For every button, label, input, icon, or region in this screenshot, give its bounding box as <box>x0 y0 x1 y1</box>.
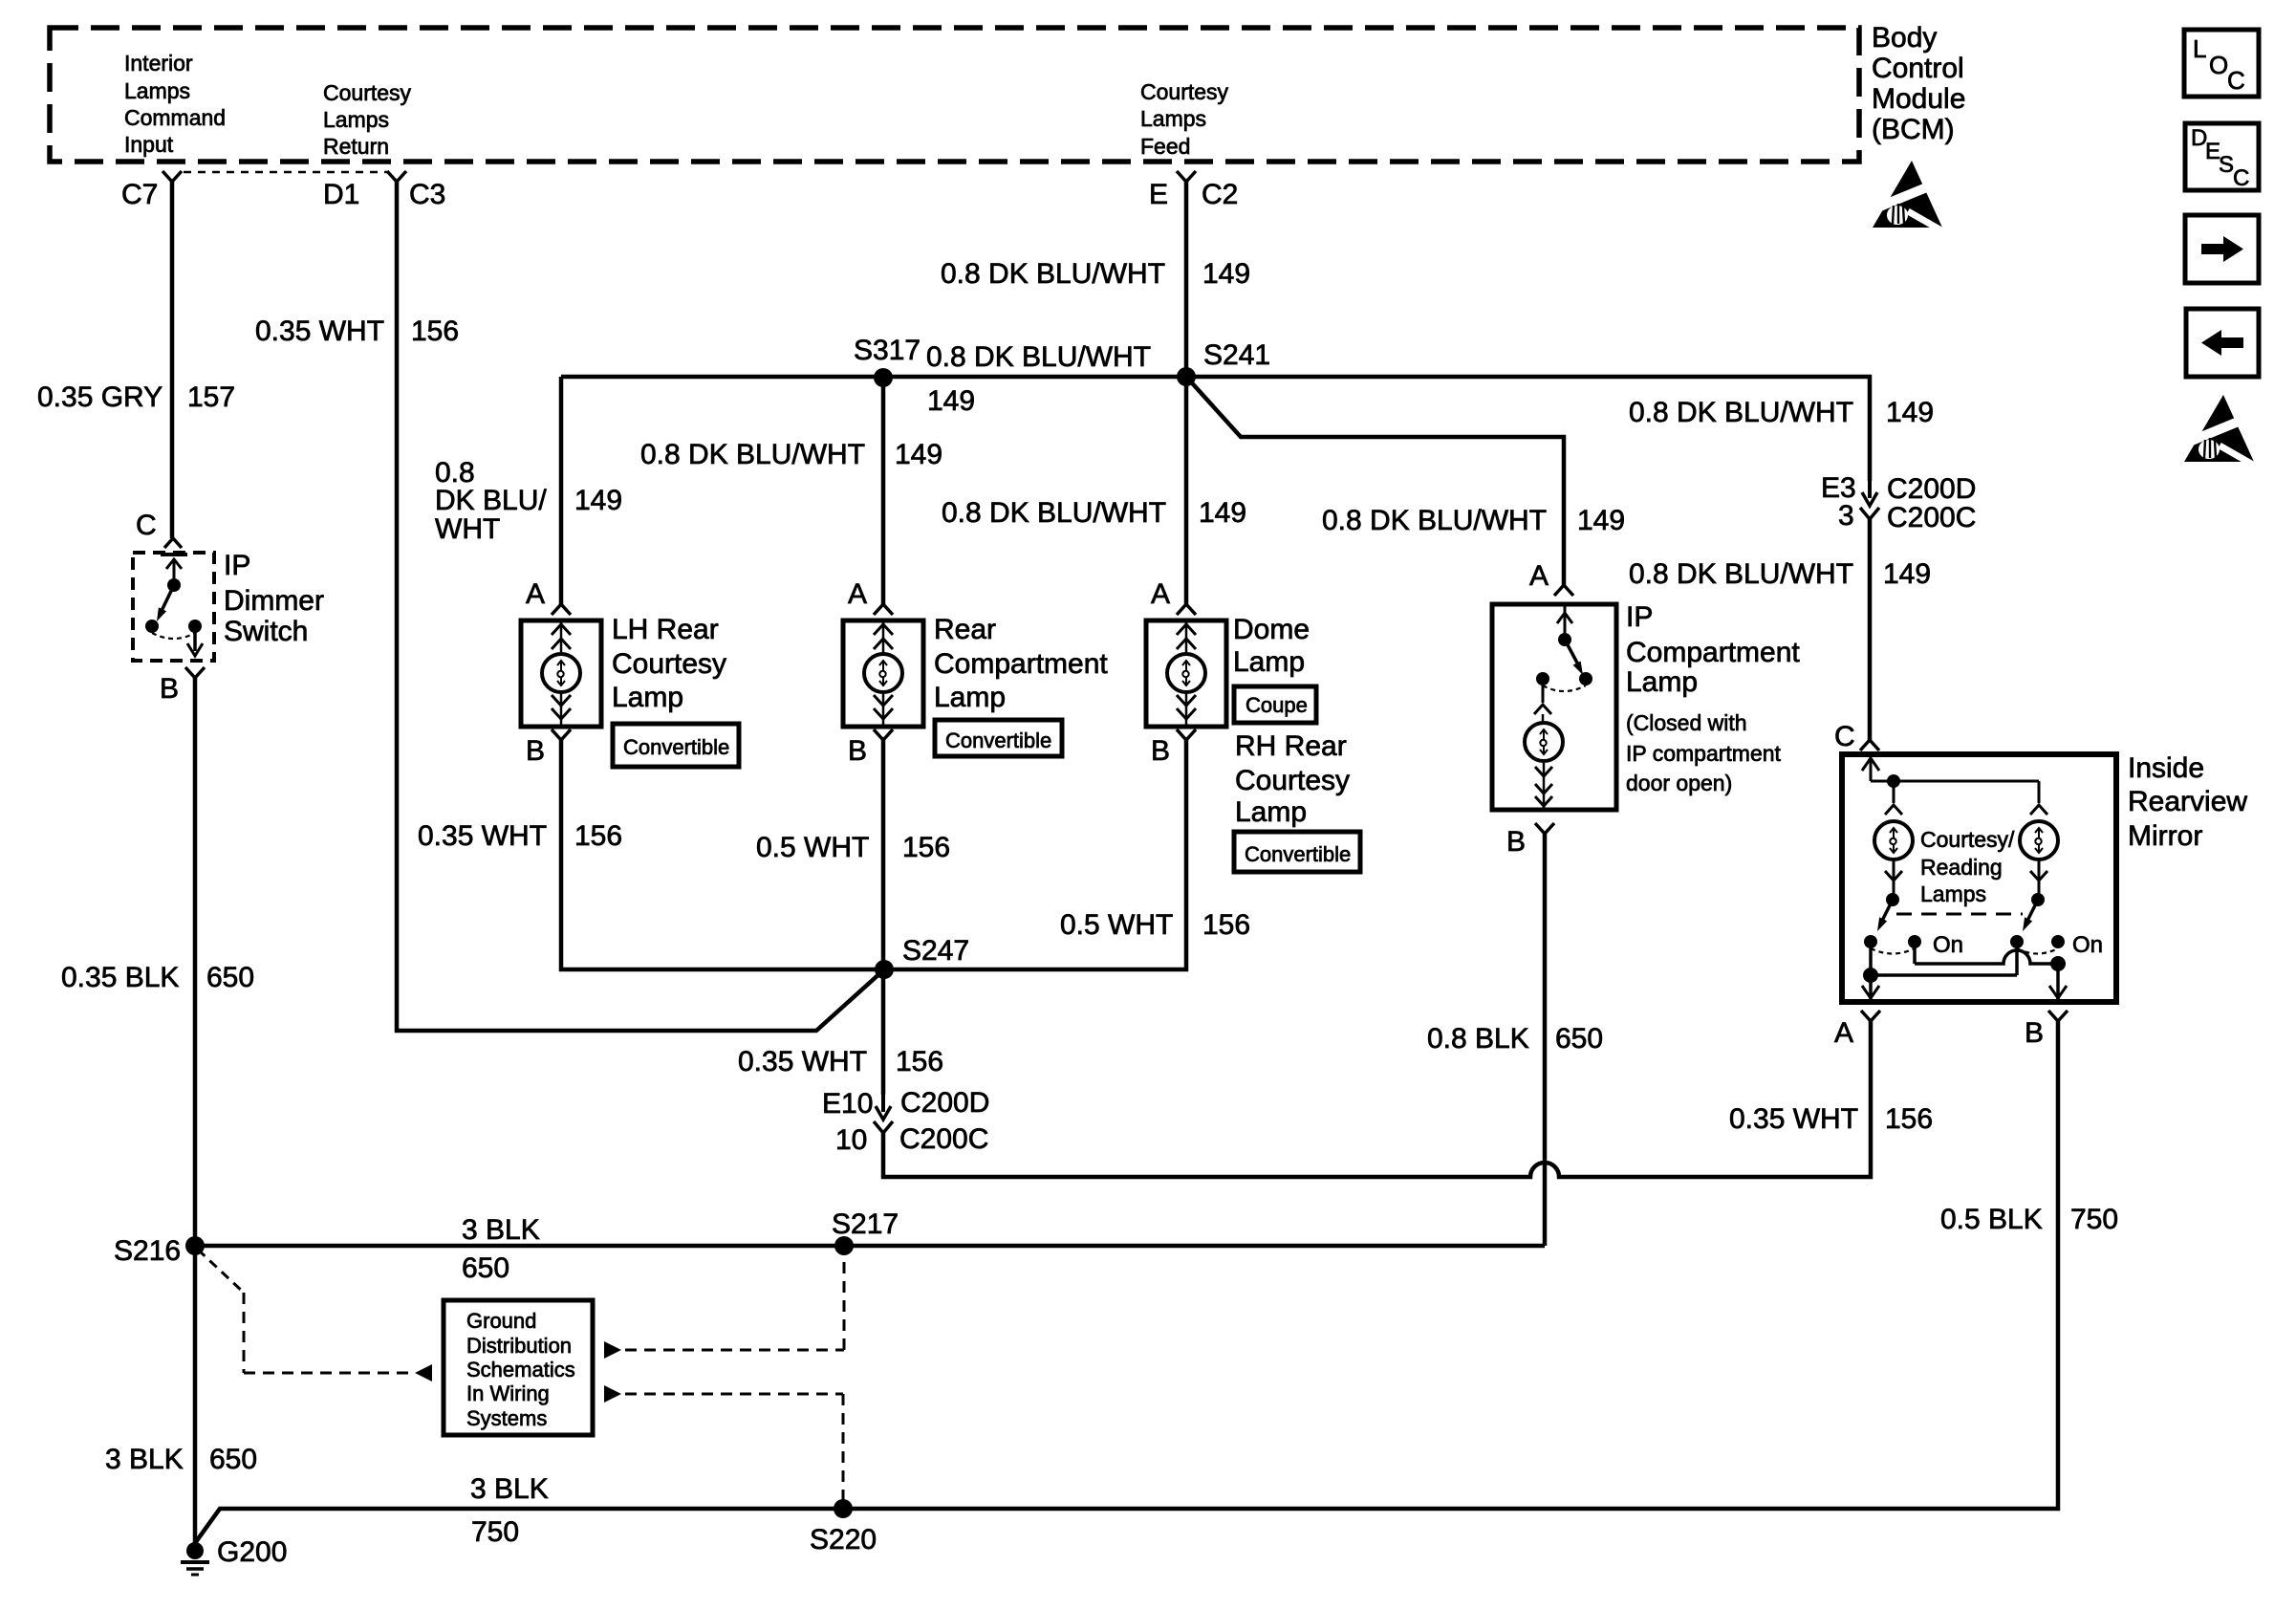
svg-text:E10: E10 <box>822 1088 873 1120</box>
connector C7 terminal <box>162 171 182 182</box>
wire 149 drop to LH rear courtesy lamp <box>559 377 564 604</box>
forward arrow box <box>2185 215 2259 283</box>
svg-text:C2: C2 <box>1202 179 1238 210</box>
svg-text:149: 149 <box>574 485 622 516</box>
svg-text:A: A <box>1151 578 1170 610</box>
svg-text:156: 156 <box>411 315 459 347</box>
svg-text:S247: S247 <box>902 935 969 967</box>
mirror right switch <box>2038 859 2041 900</box>
ESD-sensitive symbol below BCM <box>1873 161 1942 228</box>
svg-text:E: E <box>1149 179 1168 210</box>
svg-text:Switch: Switch <box>224 616 308 647</box>
svg-text:IP compartment: IP compartment <box>1626 741 1782 766</box>
splice S241 <box>1177 367 1196 386</box>
feed bus wire S317 to S241 to E3 drop <box>561 377 1870 481</box>
svg-text:A: A <box>848 578 867 610</box>
svg-text:Lamp: Lamp <box>612 682 683 713</box>
svg-text:156: 156 <box>902 832 950 863</box>
svg-text:3: 3 <box>1838 500 1854 532</box>
svg-text:0.8 DK BLU/WHT: 0.8 DK BLU/WHT <box>1629 397 1853 428</box>
svg-text:IP: IP <box>1626 601 1653 633</box>
svg-text:Lamp: Lamp <box>1235 796 1307 828</box>
svg-text:C200C: C200C <box>1887 502 1976 533</box>
svg-text:Control: Control <box>1872 53 1964 84</box>
svg-text:D1: D1 <box>323 179 359 210</box>
wire 156 from rear compartment lamp B through S247 <box>881 740 886 1095</box>
IP dimmer switch contacts and arm <box>166 559 182 569</box>
svg-text:B: B <box>1151 735 1170 767</box>
svg-text:On: On <box>2072 932 2103 958</box>
svg-text:149: 149 <box>1199 497 1246 529</box>
svg-text:C7: C7 <box>121 179 158 210</box>
wire 650 BLK from dimmer B to G200 <box>193 678 198 1551</box>
IP compartment lamp switch <box>1564 604 1567 639</box>
svg-text:Body: Body <box>1872 22 1937 54</box>
svg-text:S220: S220 <box>810 1524 877 1556</box>
svg-text:0.8 DK BLU/WHT: 0.8 DK BLU/WHT <box>942 497 1166 529</box>
wire 157 GRY from BCM C7 to IP dimmer switch <box>170 182 175 538</box>
mirror A terminal <box>1861 1011 1880 1021</box>
svg-text:Feed: Feed <box>1140 134 1190 159</box>
svg-text:0.5 BLK: 0.5 BLK <box>1940 1204 2043 1235</box>
svg-text:3 BLK: 3 BLK <box>462 1214 540 1246</box>
svg-text:C3: C3 <box>409 179 445 210</box>
svg-text:3 BLK: 3 BLK <box>470 1473 549 1505</box>
mirror B terminal <box>2048 1011 2068 1021</box>
svg-text:Convertible: Convertible <box>623 735 729 759</box>
svg-text:750: 750 <box>471 1516 519 1548</box>
dashed connector link C7-D1 <box>184 171 388 173</box>
svg-text:Rearview: Rearview <box>2128 786 2247 817</box>
svg-text:0.35 BLK: 0.35 BLK <box>61 962 179 993</box>
branch from S241 to IP compartment lamp <box>1186 377 1564 585</box>
connector D1/C3 terminal <box>387 171 406 182</box>
svg-text:S216: S216 <box>114 1235 181 1267</box>
svg-text:Command: Command <box>124 105 226 130</box>
splice S216 <box>185 1236 205 1255</box>
svg-text:149: 149 <box>1577 505 1625 536</box>
svg-text:0.8 DK BLU/WHT: 0.8 DK BLU/WHT <box>926 341 1151 373</box>
svg-text:C: C <box>2227 66 2245 95</box>
dashed reference to S217 <box>604 1341 621 1359</box>
svg-text:Mirror: Mirror <box>2128 820 2202 852</box>
wire 149 from E3 to mirror C <box>1868 519 1873 740</box>
Ground Distribution Schematics reference box <box>444 1300 593 1435</box>
svg-text:B: B <box>1506 826 1526 858</box>
RH Convertible tag <box>1234 832 1360 872</box>
svg-text:L: L <box>2193 34 2206 63</box>
svg-text:149: 149 <box>927 385 975 417</box>
dashed reference to S220 <box>604 1385 621 1403</box>
svg-text:B: B <box>526 735 545 767</box>
svg-text:0.35 WHT: 0.35 WHT <box>255 315 384 347</box>
svg-text:(Closed with: (Closed with <box>1626 710 1747 735</box>
svg-text:C200D: C200D <box>900 1087 989 1119</box>
dome Coupe tag <box>1234 686 1316 723</box>
mirror left switch <box>1893 859 1895 900</box>
svg-text:650: 650 <box>209 1444 257 1475</box>
svg-text:S: S <box>2219 152 2234 178</box>
ground wire 650 from S216 to IP compartment lamp <box>195 1244 1545 1249</box>
svg-text:Rear: Rear <box>934 614 996 645</box>
svg-text:0.35 WHT: 0.35 WHT <box>738 1046 867 1077</box>
svg-text:Courtesy: Courtesy <box>323 80 412 105</box>
wire 156 run to mirror A with hop over 650 wire <box>883 1021 1871 1177</box>
IP compartment lamp bulb <box>1542 679 1545 703</box>
svg-text:750: 750 <box>2070 1204 2118 1235</box>
wire 156 WHT from BCM D1/C3 to S247 <box>397 182 882 1031</box>
svg-text:B: B <box>2025 1017 2044 1049</box>
svg-text:IP: IP <box>224 550 250 581</box>
svg-text:Compartment: Compartment <box>1626 637 1800 668</box>
svg-text:0.8 DK BLU/WHT: 0.8 DK BLU/WHT <box>1629 558 1853 590</box>
svg-text:LH Rear: LH Rear <box>612 614 719 645</box>
svg-text:B: B <box>848 735 867 767</box>
svg-text:Lamp: Lamp <box>1233 646 1305 678</box>
splice S217 <box>834 1236 854 1255</box>
svg-text:Lamps: Lamps <box>323 107 389 132</box>
svg-text:650: 650 <box>1555 1023 1603 1055</box>
svg-text:B: B <box>160 673 179 705</box>
LH Convertible tag <box>613 724 739 767</box>
svg-text:A: A <box>526 578 545 610</box>
IP dimmer switch B terminal <box>185 667 205 678</box>
IP compartment lamp box <box>1492 604 1616 810</box>
svg-text:Lamp: Lamp <box>934 682 1006 713</box>
back arrow box <box>2186 309 2259 377</box>
svg-text:156: 156 <box>896 1046 943 1077</box>
svg-text:door open): door open) <box>1626 771 1732 795</box>
svg-text:149: 149 <box>895 439 942 470</box>
wire 149 feed from BCM E/C2 to dome lamp <box>1184 182 1189 604</box>
svg-text:G200: G200 <box>217 1536 287 1568</box>
rear compartment Convertible tag <box>935 720 1062 756</box>
LOC reference box <box>2184 30 2259 97</box>
ground G200 <box>186 1542 204 1559</box>
mirror ganged switch dashed link <box>1896 913 2023 916</box>
svg-text:0.35 GRY: 0.35 GRY <box>37 381 162 413</box>
svg-text:149: 149 <box>1883 558 1931 590</box>
svg-text:Convertible: Convertible <box>945 729 1051 752</box>
svg-text:Courtesy: Courtesy <box>1140 79 1229 104</box>
wire 149 drop to rear compartment lamp <box>881 378 886 604</box>
svg-text:3 BLK: 3 BLK <box>105 1444 184 1475</box>
svg-text:Module: Module <box>1872 83 1965 115</box>
svg-text:Distribution: Distribution <box>466 1334 572 1358</box>
svg-text:Courtesy: Courtesy <box>612 648 726 680</box>
ESD-sensitive symbol (sidebar) <box>2184 395 2254 462</box>
svg-text:Lamp: Lamp <box>1626 666 1698 698</box>
svg-text:Convertible: Convertible <box>1245 842 1351 866</box>
svg-text:S241: S241 <box>1203 339 1270 371</box>
svg-text:Input: Input <box>124 132 174 157</box>
svg-text:149: 149 <box>1202 258 1250 290</box>
IP dimmer switch dashed box <box>133 553 214 661</box>
svg-text:Compartment: Compartment <box>934 648 1108 680</box>
svg-text:Inside: Inside <box>2128 752 2204 784</box>
mirror internal feed <box>1870 754 1873 781</box>
svg-text:0.8 DK BLU/WHT: 0.8 DK BLU/WHT <box>640 439 865 470</box>
svg-text:Interior: Interior <box>124 51 193 76</box>
splice S317 <box>874 368 893 387</box>
svg-text:0.8 DK BLU/WHT: 0.8 DK BLU/WHT <box>1322 505 1547 536</box>
splice S220 <box>834 1499 853 1518</box>
svg-text:C200D: C200D <box>1887 473 1976 505</box>
inside rearview mirror box <box>1842 754 2116 1002</box>
svg-text:0.8 BLK: 0.8 BLK <box>1427 1023 1529 1055</box>
svg-text:S317: S317 <box>854 335 921 366</box>
DESC reference box <box>2185 123 2259 190</box>
svg-text:Lamps: Lamps <box>124 78 190 103</box>
svg-text:A: A <box>1529 560 1549 592</box>
svg-text:157: 157 <box>187 381 235 413</box>
svg-text:0.5 WHT: 0.5 WHT <box>756 832 869 863</box>
svg-text:On: On <box>1933 932 1963 958</box>
svg-text:Systems: Systems <box>466 1406 547 1430</box>
Body Control Module (BCM) dashed box <box>50 28 1859 162</box>
svg-text:C: C <box>136 510 157 541</box>
svg-text:149: 149 <box>1886 397 1934 428</box>
svg-text:650: 650 <box>206 962 254 993</box>
wire 156 from dome lamp B to S247 <box>884 740 1186 969</box>
svg-text:0.5 WHT: 0.5 WHT <box>1060 909 1173 941</box>
svg-text:Schematics: Schematics <box>466 1358 575 1382</box>
wire 650 BLK from IP lamp B to ground wire <box>1543 834 1548 1246</box>
svg-text:156: 156 <box>1885 1103 1933 1135</box>
svg-text:Coupe: Coupe <box>1245 693 1308 717</box>
svg-text:Courtesy: Courtesy <box>1235 765 1350 796</box>
wire 156 from LH lamp B to S247 <box>561 740 876 969</box>
svg-text:In Wiring: In Wiring <box>466 1382 550 1405</box>
svg-text:RH Rear: RH Rear <box>1235 730 1347 762</box>
svg-text:Dimmer: Dimmer <box>224 585 324 617</box>
IP compartment lamp B terminal <box>1535 823 1554 834</box>
svg-text:C: C <box>1834 721 1855 752</box>
connector E/C2 terminal <box>1177 171 1196 182</box>
mirror internal ground wiring <box>1869 942 1873 1002</box>
dashed reference from S216 <box>198 1250 244 1293</box>
mirror left lamp <box>1893 781 1895 803</box>
svg-text:C: C <box>2233 165 2249 191</box>
svg-text:S217: S217 <box>832 1208 899 1240</box>
svg-text:0.35 WHT: 0.35 WHT <box>418 820 547 852</box>
mirror right lamp <box>2038 781 2041 803</box>
svg-text:0.35 WHT: 0.35 WHT <box>1729 1103 1858 1135</box>
svg-text:10: 10 <box>835 1124 867 1156</box>
svg-text:Reading: Reading <box>1920 855 2003 880</box>
svg-text:Return: Return <box>323 134 389 159</box>
svg-text:Courtesy/: Courtesy/ <box>1920 827 2015 852</box>
splice S247 <box>875 960 894 979</box>
svg-text:DK BLU/: DK BLU/ <box>435 485 547 516</box>
svg-text:Ground: Ground <box>466 1309 536 1333</box>
svg-text:156: 156 <box>1202 909 1250 941</box>
inline connector E10 C200D / 10 C200C <box>881 1095 885 1112</box>
svg-text:A: A <box>1834 1017 1853 1049</box>
svg-text:Lamps: Lamps <box>1920 881 1986 906</box>
svg-text:(BCM): (BCM) <box>1872 114 1955 145</box>
svg-text:156: 156 <box>574 820 622 852</box>
svg-text:Lamps: Lamps <box>1140 106 1206 131</box>
svg-text:WHT: WHT <box>435 513 500 545</box>
svg-text:O: O <box>2209 51 2228 79</box>
inline connector E3 C200D / 3 C200C <box>1868 481 1872 498</box>
svg-text:0.8 DK BLU/WHT: 0.8 DK BLU/WHT <box>941 258 1165 290</box>
svg-text:650: 650 <box>462 1252 509 1284</box>
svg-text:Dome: Dome <box>1233 614 1310 645</box>
wire 750 BLK bottom run to mirror B <box>195 1021 2058 1543</box>
svg-text:C200C: C200C <box>899 1123 988 1155</box>
